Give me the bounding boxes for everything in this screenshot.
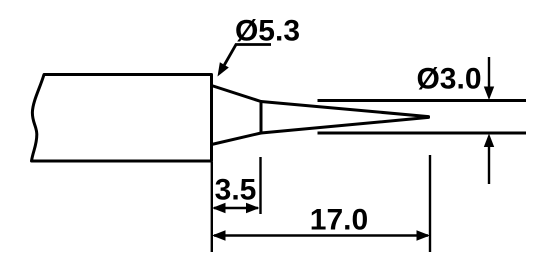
shaft top line xyxy=(318,99,527,102)
extension line at x=430 xyxy=(429,155,431,252)
long thin tip taper xyxy=(261,102,429,134)
3.5 left arrowhead xyxy=(212,203,226,213)
extension line at x=212 xyxy=(211,162,213,252)
3.5 right arrowhead xyxy=(246,203,260,213)
soldering iron body outline with break line xyxy=(32,75,212,162)
diameter 3.0 dimension upper line with down arrow xyxy=(488,57,490,88)
extension line at x=260.5 xyxy=(259,157,261,214)
shaft bottom line xyxy=(318,132,527,135)
svg-text:3.5: 3.5 xyxy=(215,174,257,207)
diameter 5.3 leader line with arrow xyxy=(224,45,271,66)
svg-text:Ø5.3: Ø5.3 xyxy=(235,15,300,48)
diameter 3.0 dimension lower line with up arrow xyxy=(488,146,490,184)
svg-text:17.0: 17.0 xyxy=(310,204,368,237)
leader arrowhead xyxy=(218,62,229,76)
17.0 dimension line xyxy=(214,234,428,236)
diameter 3.0 down arrowhead xyxy=(484,87,494,101)
cone taper from body xyxy=(212,86,262,145)
cone neck vertical line xyxy=(260,102,263,134)
17.0 right arrowhead xyxy=(417,230,431,240)
17.0 left arrowhead xyxy=(212,230,226,240)
3.5 dimension line xyxy=(214,207,258,209)
svg-text:Ø3.0: Ø3.0 xyxy=(416,63,481,96)
diameter 3.0 up arrowhead xyxy=(484,134,494,148)
